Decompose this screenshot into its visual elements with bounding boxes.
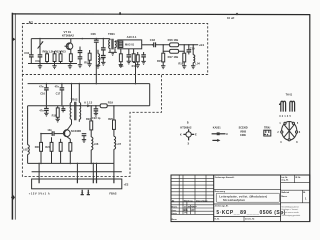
svg-text:Benennung: Benennung	[215, 191, 226, 193]
wire primary/secondary bottoms	[110, 49, 115, 53]
svg-text:C17: C17	[56, 92, 61, 96]
svg-text:A 1.13: A 1.13	[84, 101, 93, 105]
svg-text:Stromlaufplan: Stromlaufplan	[223, 198, 245, 202]
capacitor C18 series	[154, 42, 156, 47]
node	[61, 83, 63, 85]
svg-text:+12V 5V±1 Λ: +12V 5V±1 Λ	[29, 192, 50, 196]
left sheet edge line (outer)	[11, 13, 13, 220]
wire R12 to rising drop wire	[134, 61, 136, 64]
svg-text:R19: R19	[108, 100, 114, 104]
capacitor C20 below bus	[45, 106, 47, 108]
ground	[119, 65, 123, 68]
svg-text:Gepr.: Gepr.	[172, 210, 177, 212]
svg-text:Datum Name: Datum Name	[196, 199, 208, 202]
signature scribbles	[184, 206, 197, 213]
svg-text:10n: 10n	[47, 128, 52, 132]
svg-text:C22 1p: C22 1p	[92, 116, 101, 120]
capacitor C24 at collector	[82, 134, 87, 136]
right column divider	[280, 175, 282, 222]
svg-text:FBAS: FBAS	[109, 192, 116, 196]
svg-text:МА3 01: МА3 01	[125, 43, 135, 47]
svg-text:32145: 32145	[279, 115, 292, 118]
dashed box: modulator section (lower, stepped outline)	[22, 75, 161, 177]
ground	[108, 52, 117, 55]
resistor R18a	[183, 53, 186, 62]
bottom row separator	[214, 215, 281, 217]
signature sub-verticals	[187, 202, 191, 215]
svg-text:Masse: Masse	[281, 196, 287, 198]
resistor R24 (emitter)	[69, 143, 72, 152]
capacitor C21	[62, 106, 64, 109]
ground	[161, 66, 165, 69]
coil L05	[28, 145, 30, 155]
resistor R02	[53, 54, 56, 62]
transformer TR02 core	[75, 102, 76, 120]
svg-text:Zeichnungs-Nr.: Zeichnungs-Nr.	[215, 206, 229, 208]
coil L07	[113, 129, 115, 136]
svg-text:Lat. Nr.: Lat. Nr.	[281, 176, 288, 179]
svg-text:C16: C16	[40, 92, 45, 96]
node	[61, 105, 63, 107]
svg-text:+E1: +E1	[199, 43, 205, 47]
svg-text:Zeichnungs-Stammbl.: Zeichnungs-Stammbl.	[215, 176, 235, 179]
right column top cell rows	[281, 183, 310, 203]
resistor R13	[136, 55, 139, 62]
wire: drop to connector pin 2	[76, 163, 78, 179]
svg-text:R17 18k: R17 18k	[168, 55, 179, 59]
wire: drop to connector pin 1	[38, 163, 40, 179]
svg-text:R18: R18	[178, 61, 183, 65]
svg-text:C19: C19	[190, 46, 195, 50]
ground	[141, 61, 145, 64]
benennung separator	[214, 188, 281, 190]
right border line	[309, 14, 311, 221]
wire: modulator mid bus / output line	[28, 105, 150, 107]
ground	[52, 64, 56, 69]
title block outer frame	[171, 175, 310, 222]
wire: IC output to +E1 rail	[142, 44, 153, 46]
signature rows	[171, 205, 214, 215]
svg-text:R11: R11	[119, 64, 124, 68]
wire: branch down	[102, 39, 104, 48]
resistor R20	[113, 106, 115, 120]
svg-text:KT368A2: KT368A2	[180, 126, 192, 130]
svg-text:SC236D: SC236D	[71, 129, 81, 133]
svg-text:Б: Б	[187, 121, 189, 124]
wire: drop from oscillator to modulator bus	[95, 42, 97, 83]
svg-text:2.10.89: 2.10.89	[184, 207, 190, 209]
transistor VT01	[66, 43, 73, 50]
svg-text:Э: Э	[187, 142, 189, 145]
tube base pins	[284, 122, 286, 124]
node	[152, 44, 154, 46]
capacitor C16	[45, 84, 47, 88]
ground	[87, 64, 91, 67]
resistor R17 (parallel)	[170, 49, 179, 53]
connector pin ticks	[39, 179, 114, 183]
wire: left rail down	[27, 106, 29, 145]
resistor R05	[88, 53, 91, 60]
ground	[136, 65, 140, 68]
svg-text:Zng.-Nr.: Zng.-Nr.	[281, 180, 289, 182]
left sheet edge line (inner)	[14, 13, 16, 219]
svg-text:C01: C01	[24, 51, 30, 55]
title text box	[216, 193, 279, 202]
coil L02	[97, 50, 99, 54]
wire parallel branch	[163, 45, 184, 52]
svg-text:Unterlage u. Verwert.: Unterlage u. Verwert.	[281, 208, 298, 211]
svg-text:E: E	[195, 133, 197, 137]
transformer TR01 core	[112, 39, 113, 50]
svg-text:10 нF: 10 нF	[227, 16, 235, 20]
filing mark triangle on left edge	[13, 38, 16, 41]
svg-text:TR0U: TR0U	[264, 127, 271, 130]
resistor R11 below IC	[120, 49, 122, 54]
tick mark 2 on top border	[236, 13, 238, 15]
node	[70, 163, 72, 165]
capacitor C07	[101, 48, 106, 50]
transistor pinout symbol	[186, 132, 191, 137]
svg-text:R18: R18	[52, 113, 57, 117]
resistor R19 (series in output line)	[100, 104, 107, 108]
wire: strip top line	[32, 171, 122, 173]
ground	[38, 64, 42, 69]
ground	[182, 66, 186, 69]
tick mark on top border	[119, 12, 121, 15]
dashed box: tuner/oscillator section (top)	[22, 24, 207, 75]
node	[162, 44, 164, 46]
wire: bottom bus	[28, 162, 114, 164]
wire: output riser	[149, 84, 151, 106]
svg-text:R16 18k: R16 18k	[168, 38, 179, 42]
winding symbol left	[280, 101, 286, 111]
transformer TR01 secondary	[115, 41, 116, 49]
ground arrow a	[81, 190, 84, 195]
transformer TR02 secondary	[78, 84, 80, 103]
ground	[78, 65, 82, 68]
wire: left branch down	[30, 39, 32, 55]
resistor R23	[51, 137, 53, 142]
number row separator	[214, 203, 281, 205]
revision grid verticals	[179, 175, 206, 214]
ground	[127, 61, 131, 64]
resistor R25	[60, 139, 62, 143]
coil L06	[90, 130, 92, 137]
transformer TR01 primary	[109, 39, 110, 50]
svg-text:Genehmigung gestattet: Genehmigung gestattet	[281, 214, 300, 217]
svg-text:5·KCP__89____0506 (Sp): 5·KCP__89____0506 (Sp)	[216, 210, 285, 216]
svg-text:C18: C18	[150, 38, 156, 42]
svg-text:47n: 47n	[39, 108, 44, 112]
svg-text:VB08: VB08	[240, 130, 247, 133]
node	[183, 44, 185, 46]
capacitor C02	[38, 55, 43, 57]
wire: drop to connector pin 5	[113, 163, 115, 179]
resistor R04 (emitter)	[69, 54, 72, 62]
wire: riser to oscillator section	[135, 63, 137, 84]
node at collector rail	[82, 38, 84, 40]
capacitor C15	[143, 52, 145, 55]
capacitor C22 to ground	[95, 106, 97, 109]
trimmer arrow (tuning)	[38, 42, 43, 48]
node	[135, 83, 137, 85]
node at L01 top	[39, 38, 41, 40]
svg-text:ТН 01: ТН 01	[286, 93, 293, 96]
svg-text:R21: R21	[35, 145, 40, 149]
node	[95, 105, 97, 107]
resistor R22	[90, 106, 92, 121]
stamp mark in grid	[184, 209, 186, 211]
svg-text:L06: L06	[94, 142, 99, 146]
wire: top supply rail of oscillator	[31, 38, 110, 40]
right top cell divider	[294, 175, 296, 183]
top border line	[12, 13, 310, 16]
node	[113, 105, 115, 107]
capacitor C19	[188, 45, 190, 50]
tube base V01 circle	[282, 122, 297, 141]
svg-text:Zeichn.-Nr.: Zeichn.-Nr.	[245, 218, 255, 220]
ground arrow b	[87, 190, 90, 195]
node	[46, 83, 48, 85]
svg-text:Kontr.: Kontr.	[172, 212, 178, 215]
svg-text:R20: R20	[108, 117, 113, 121]
ground	[101, 62, 105, 65]
svg-text:TR01: TR01	[108, 32, 115, 36]
revision grid rows	[171, 178, 214, 198]
svg-text:+E2: +E2	[124, 183, 129, 187]
bottom row divider	[243, 216, 245, 221]
wire L01 branch	[39, 39, 41, 55]
svg-text:47n: 47n	[55, 85, 60, 89]
wire secondary top to A1	[115, 40, 118, 42]
arrow on output line	[87, 104, 91, 107]
svg-text:KA531: KA531	[213, 127, 221, 130]
svg-text:R15: R15	[157, 59, 162, 63]
wire: modulator top bus	[28, 83, 150, 85]
capacitor C14 below IC	[128, 49, 130, 55]
resistor R12 below IC	[133, 49, 135, 54]
capacitor C06 in series on drop wire	[95, 39, 97, 40]
TR package symbol	[264, 130, 271, 136]
coil L04	[192, 45, 194, 55]
capacitor C08	[101, 56, 106, 58]
capacitor C17	[61, 84, 63, 88]
resistor R03	[59, 54, 62, 62]
node	[192, 44, 194, 46]
svg-text:L07: L07	[117, 142, 122, 146]
node	[40, 163, 42, 165]
svg-text:Mitteilung: Mitteilung	[184, 199, 194, 202]
svg-text:C06: C06	[91, 32, 97, 36]
svg-text:L04: L04	[195, 62, 200, 66]
svg-text:W.-Nr.: W.-Nr.	[295, 177, 301, 179]
svg-text:R23: R23	[45, 145, 50, 149]
header line	[171, 201, 214, 203]
svg-text:Б1: Б1	[29, 20, 33, 24]
transformer TR02 primary	[71, 84, 73, 103]
node	[188, 44, 190, 46]
node	[46, 105, 48, 107]
resistor R16 (series in rail)	[170, 43, 179, 47]
diode symbol	[212, 133, 226, 135]
svg-text:nur mit unserer ausdr.: nur mit unserer ausdr.	[281, 211, 299, 214]
wire: drop to connector pin 4	[96, 163, 98, 179]
svg-text:R22: R22	[86, 117, 91, 121]
svg-text:C02: C02	[35, 59, 41, 63]
node C06 top	[96, 38, 98, 40]
polarity arrow	[212, 139, 218, 141]
svg-text:R12: R12	[132, 64, 137, 68]
svg-text:A10 2.1: A10 2.1	[127, 35, 137, 39]
svg-text:R07: R07	[84, 61, 89, 65]
svg-text:Maßstab: Maßstab	[281, 191, 290, 194]
wire: base line VT02	[41, 133, 52, 135]
node	[96, 83, 98, 85]
node	[90, 163, 92, 165]
capacitor C05	[78, 57, 83, 59]
tube base internal wiring	[284, 122, 295, 141]
capacitor C04	[79, 47, 81, 51]
node rail/cap branch	[103, 38, 105, 40]
wire +E1 rail	[156, 44, 199, 46]
IC A1 crystal sub-block	[119, 41, 123, 47]
svg-text:47n: 47n	[39, 85, 44, 89]
connector X01 body	[32, 179, 122, 189]
resistor R18	[57, 106, 59, 108]
capacitor C01	[29, 55, 34, 57]
svg-text:4.10.: 4.10.	[184, 209, 189, 212]
transistor VT02	[63, 130, 70, 137]
svg-text:Bearb.: Bearb.	[172, 207, 178, 209]
svg-text:K.-St.: K.-St.	[215, 217, 220, 220]
IC A1 box	[118, 40, 142, 49]
wire: drop to connector pin 3	[92, 163, 94, 179]
svg-text:L05: L05	[23, 147, 28, 151]
centre mark diamond on left edge	[11, 195, 15, 200]
resistor R21	[40, 134, 42, 143]
capacitor C23 series in base line	[52, 131, 54, 136]
svg-text:Norm: Norm	[172, 219, 177, 221]
resistor R15	[162, 53, 165, 62]
svg-text:C30E: C30E	[240, 134, 246, 137]
resistor R01	[46, 54, 49, 62]
svg-text:SC230D: SC230D	[239, 127, 248, 130]
svg-text:Vervielfältigung dieser: Vervielfältigung dieser	[281, 205, 299, 208]
heavy divider left grid / main	[213, 175, 215, 222]
svg-text:KT368A2: KT368A2	[62, 34, 74, 38]
winding symbol right	[290, 101, 295, 111]
wire: bottom rail	[28, 63, 77, 65]
ground	[68, 64, 72, 69]
